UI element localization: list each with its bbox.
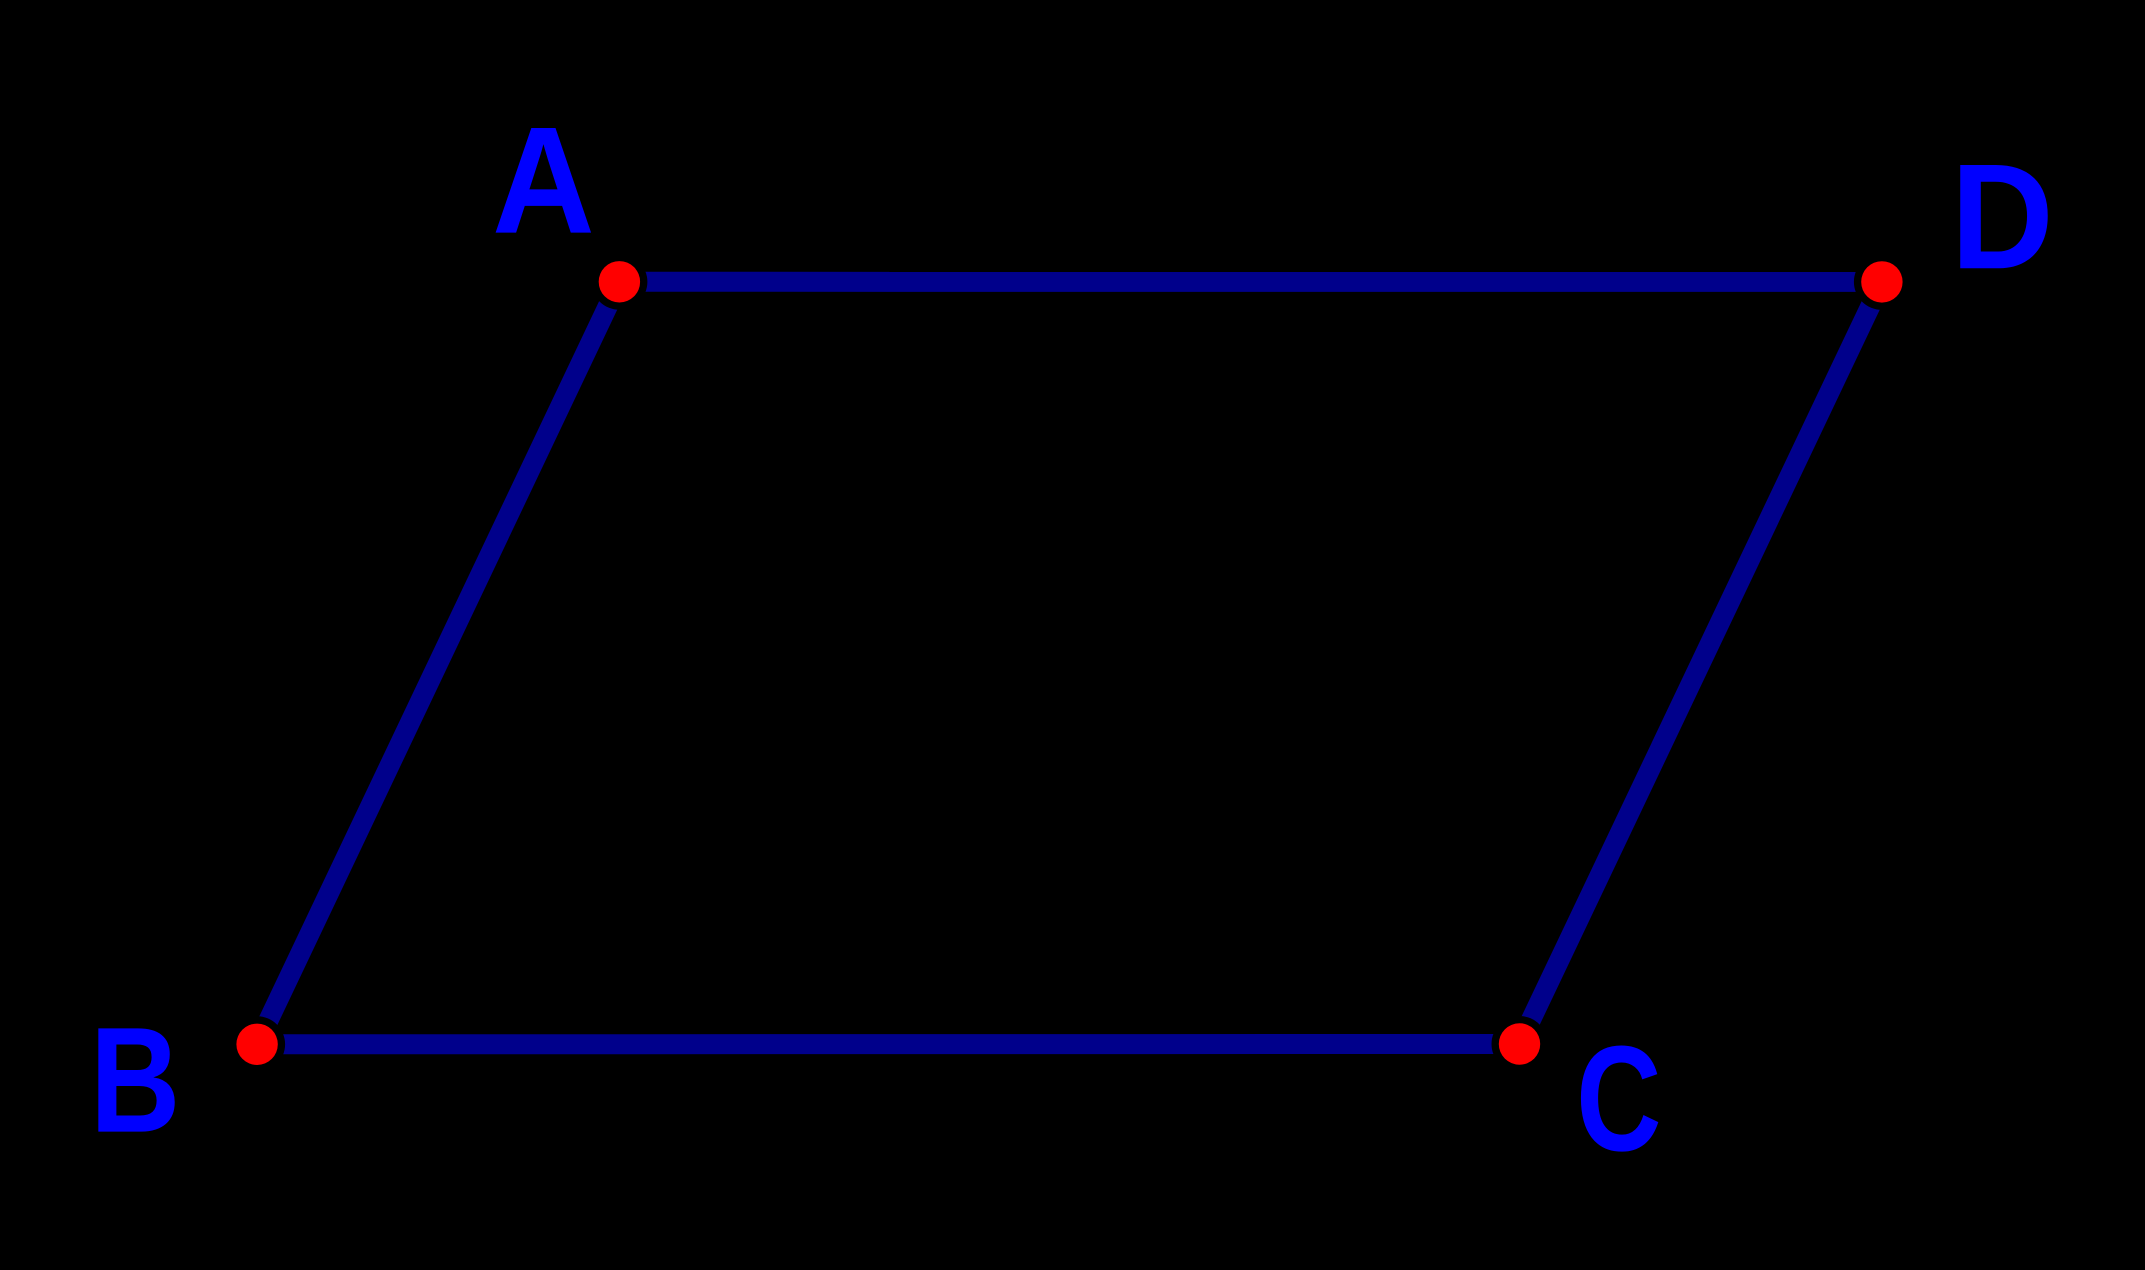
label D bbox=[1951, 133, 2054, 301]
svg-text:C: C bbox=[1576, 1015, 1661, 1183]
svg-text:B: B bbox=[90, 997, 180, 1164]
svg-text:A: A bbox=[492, 96, 595, 265]
wire side CD bbox=[1520, 282, 1882, 1044]
node B ring bbox=[229, 1016, 285, 1072]
wire side BC bbox=[257, 1034, 1519, 1054]
svg-text:D: D bbox=[1951, 133, 2054, 301]
label C bbox=[1576, 1015, 1661, 1183]
node C dot bbox=[1499, 1023, 1540, 1064]
node A ring bbox=[591, 254, 647, 310]
node D dot bbox=[1861, 261, 1902, 302]
label B bbox=[90, 997, 180, 1164]
label A bbox=[492, 96, 595, 265]
wire side AB bbox=[257, 282, 619, 1045]
node B dot bbox=[236, 1024, 277, 1065]
node C ring bbox=[1492, 1016, 1548, 1072]
node A dot bbox=[599, 261, 640, 302]
node D ring bbox=[1854, 254, 1910, 310]
wire side AD bbox=[619, 272, 1882, 292]
